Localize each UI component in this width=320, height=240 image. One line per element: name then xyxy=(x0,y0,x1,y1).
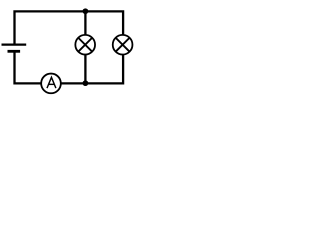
battery cell short plate (-) xyxy=(8,50,21,53)
wire: lamp L1 branch (top dot to bottom dot) xyxy=(84,11,86,83)
ammeter label A (drawn as strokes) xyxy=(47,77,56,88)
lamp L2 xyxy=(113,35,133,55)
wire: left lead lower + bottom wire + right lead lower xyxy=(15,45,124,83)
node junction dot bottom xyxy=(83,80,89,86)
lamp L1 xyxy=(75,35,95,55)
battery cell long plate (+) xyxy=(2,43,27,45)
ammeter A xyxy=(41,74,61,94)
wire: left lead upper + top wire + right lead xyxy=(15,11,124,45)
node junction dot top xyxy=(83,8,89,14)
